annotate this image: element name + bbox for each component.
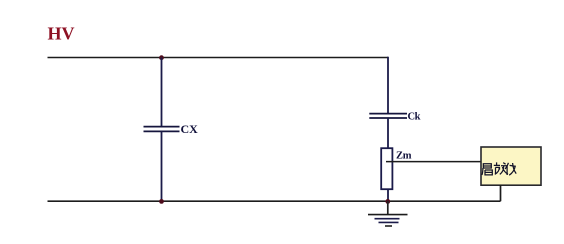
impedance Zm (box resistor) (381, 148, 392, 189)
junction bottom of Zm branch (385, 199, 390, 204)
ground (368, 201, 408, 226)
svg-text:HV: HV (48, 24, 75, 44)
wire bottom bus (48, 200, 501, 202)
junction bottom of CX branch (159, 199, 164, 204)
wire top bus (48, 57, 389, 59)
capacitor Ck (369, 114, 407, 118)
wire CX lower lead (161, 131, 163, 201)
capacitor CX (144, 127, 180, 132)
junction top of CX branch (159, 55, 164, 60)
svg-text:Ck: Ck (408, 112, 421, 123)
svg-text:Zm: Zm (396, 151, 412, 162)
wire detector box to bottom bus (500, 185, 502, 201)
char 3 (505, 163, 516, 175)
char 2 (494, 162, 508, 174)
wire Zm lower lead (387, 189, 389, 201)
char 1 (482, 164, 492, 175)
svg-text:CX: CX (181, 122, 199, 136)
wire Ck upper lead (corner from top bus) (387, 57, 389, 114)
detector box (PD instrument) (481, 147, 541, 185)
label detector text (hand-drawn CJK strokes) (482, 162, 516, 175)
wire Ck to Zm (387, 118, 389, 149)
wire CX upper lead (161, 58, 163, 127)
wire Zm tap to detector box (386, 161, 481, 163)
